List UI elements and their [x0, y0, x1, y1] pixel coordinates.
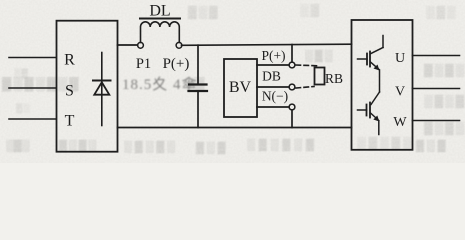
- svg-text:RB: RB: [325, 71, 343, 86]
- terminal DB: [289, 84, 295, 90]
- wire U output: [413, 55, 460, 57]
- svg-text:▒░▒: ▒░▒: [196, 141, 228, 154]
- svg-text:▒░▒░: ▒░▒░: [424, 63, 465, 77]
- wire DC+ bus: [182, 44, 352, 45]
- svg-text:DB: DB: [262, 69, 281, 84]
- rectifier box: [57, 21, 118, 152]
- terminal P1: [138, 42, 144, 48]
- svg-text:P(+): P(+): [163, 56, 190, 72]
- svg-text:T: T: [65, 113, 75, 130]
- svg-text:W: W: [393, 115, 407, 130]
- wire BV to N(-) terminal: [257, 106, 289, 108]
- wire T input: [9, 118, 56, 120]
- transistor Q1 (top IGBT): [358, 36, 384, 71]
- svg-text:▒░▒░: ▒░▒░: [59, 139, 98, 152]
- inverter box: [352, 20, 413, 150]
- wire N(-) terminal to DC- bus: [291, 110, 293, 128]
- svg-text:░▒: ░▒: [300, 3, 321, 17]
- inductor DL: [140, 19, 180, 43]
- wire R input: [9, 57, 56, 59]
- wire Q1 emitter to Q2 collector: [379, 70, 381, 92]
- svg-text:░▒░▒░▒: ░▒░▒░▒: [247, 138, 318, 151]
- terminal P(+): [176, 42, 182, 48]
- svg-text:S: S: [65, 83, 74, 100]
- svg-text:▒░▒: ▒░▒: [416, 139, 448, 152]
- capacitor C1: [189, 45, 208, 127]
- svg-text:░▒░: ░▒░: [6, 139, 30, 152]
- svg-text:R: R: [64, 52, 75, 69]
- svg-text:▒░▒░: ▒░▒░: [424, 121, 465, 135]
- wire V output: [413, 88, 460, 90]
- svg-text:▒░: ▒░: [16, 103, 31, 114]
- wire W output: [413, 120, 460, 122]
- svg-text:░▒░▒░: ░▒░▒░: [124, 140, 178, 153]
- wire S input: [9, 87, 56, 89]
- braking unit BV: [224, 59, 257, 117]
- svg-text:U: U: [395, 51, 405, 66]
- terminal P(+) of BV: [289, 62, 295, 68]
- svg-text:P(+): P(+): [261, 48, 285, 63]
- wire BV to P(+) terminal: [257, 64, 289, 66]
- svg-text:N(−): N(−): [262, 89, 288, 104]
- svg-text:░▒░▒: ░▒░▒: [424, 94, 465, 108]
- wire DC+ bus to BV P(+) terminal: [291, 45, 293, 62]
- wire DC- bus: [118, 127, 352, 129]
- wire rectifier to P1: [118, 44, 138, 46]
- wire BV to DB terminal: [257, 86, 289, 88]
- svg-text:░▒░: ░▒░: [426, 5, 458, 19]
- svg-text:░▒: ░▒: [14, 68, 29, 79]
- svg-text:DL: DL: [149, 3, 170, 20]
- svg-text:P1: P1: [136, 56, 151, 72]
- svg-text:V: V: [395, 85, 405, 100]
- diode D1: [93, 53, 111, 126]
- svg-text:BV: BV: [229, 79, 252, 96]
- svg-text:▒░▒: ▒░▒: [188, 5, 220, 19]
- transistor Q2 (bottom IGBT): [358, 92, 380, 135]
- terminal N(-): [289, 104, 295, 110]
- resistor RB: [296, 65, 325, 88]
- svg-text:░▒░▒░: ░▒░▒░: [357, 136, 415, 150]
- svg-text:░▒░: ░▒░: [305, 49, 334, 62]
